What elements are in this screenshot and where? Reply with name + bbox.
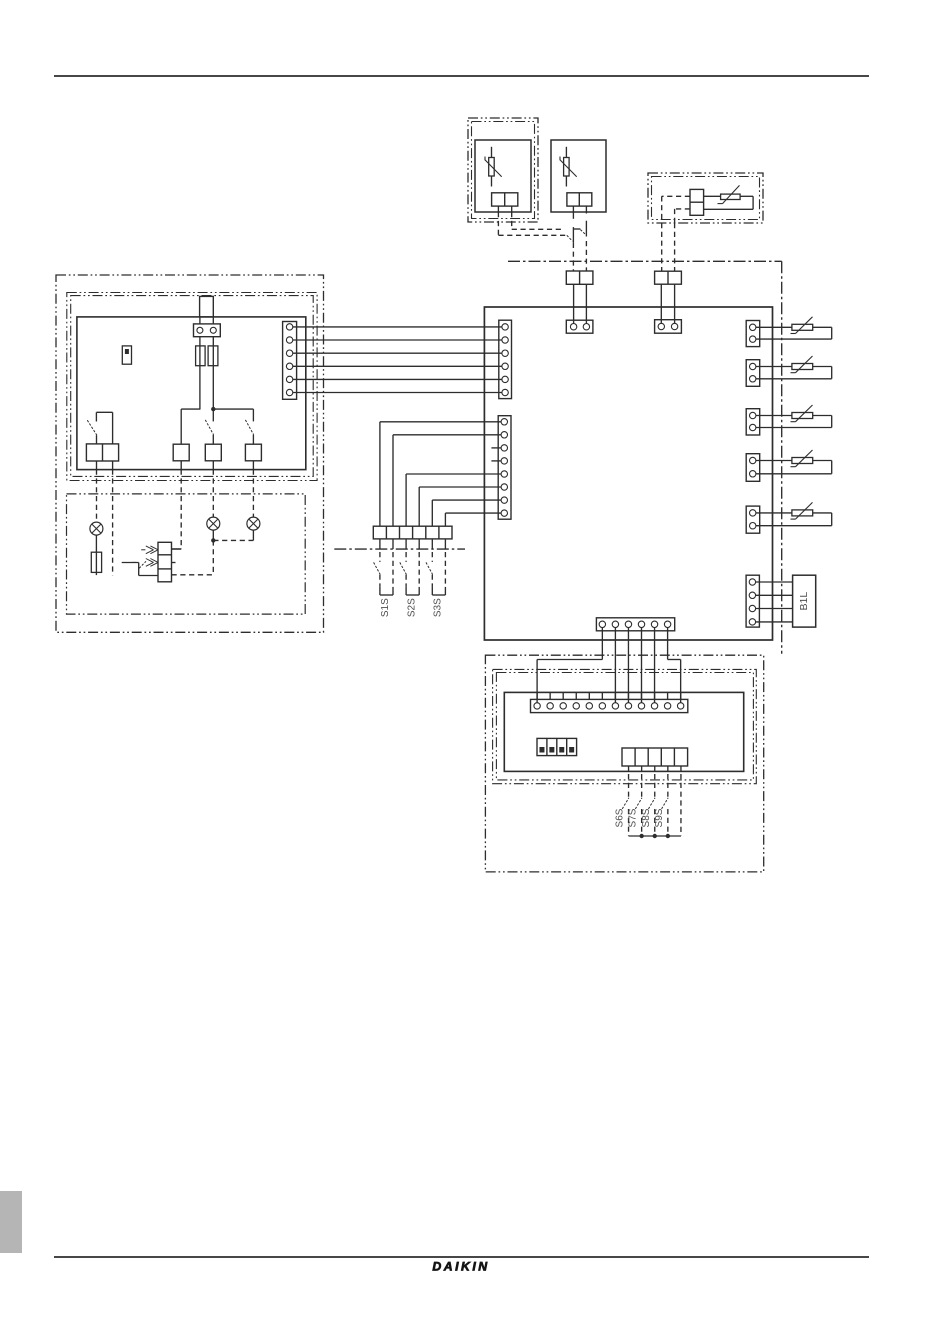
connector X34A	[746, 506, 760, 533]
wire A left pin dashed	[497, 212, 499, 235]
switch common bus	[629, 835, 681, 837]
connector X1B pins	[573, 206, 586, 213]
thermistor R1T lead	[491, 147, 493, 187]
thermistor R6T loop	[753, 416, 832, 428]
wire dashed to switch lower	[498, 234, 566, 236]
switch S8S	[641, 774, 655, 836]
connector X11A	[566, 320, 593, 333]
connector X4M	[596, 618, 674, 631]
wire A right pin dashed	[511, 212, 513, 229]
plug X10D pins	[200, 317, 213, 324]
thermistor R1T strike	[485, 157, 502, 177]
switch S3S	[426, 552, 445, 617]
contactor K1M aux contact	[122, 561, 158, 575]
DAIKIN logo	[432, 1260, 489, 1274]
wire H2P junction	[212, 530, 214, 540]
thermistor R5T loop	[753, 367, 832, 379]
thermistor R2T lead	[565, 147, 567, 187]
svg-text:B1L: B1L	[798, 592, 810, 611]
sensor box A body	[475, 140, 531, 212]
relay contact K1R	[180, 409, 182, 444]
switch S7S	[628, 774, 642, 836]
svg-text:DAIKIN: DAIKIN	[432, 1260, 489, 1274]
contactor K1M stack	[158, 542, 172, 582]
wire dashed contactor return	[172, 574, 214, 576]
thermistor R4T loop	[753, 327, 832, 339]
thermistor R4T body	[792, 324, 813, 330]
svg-text:S6S: S6S	[615, 808, 626, 827]
wire C to X2B dashed	[662, 223, 675, 271]
wires indoor strip to X1M	[290, 327, 506, 393]
switch S1S	[374, 552, 393, 617]
connector X1A	[492, 193, 518, 206]
relay contact K3R	[245, 409, 253, 444]
thermistor R3T loop	[704, 196, 754, 209]
svg-text:S1S: S1S	[380, 598, 391, 617]
switch S2S	[400, 552, 419, 617]
switch S pole	[573, 212, 580, 243]
controller box body	[77, 317, 306, 470]
wire X11D to bus right	[212, 337, 214, 409]
connector X2B	[655, 271, 682, 284]
connector X1A pins	[498, 206, 511, 212]
thermistor R7T loop	[753, 461, 832, 474]
wire dashed junction down	[212, 540, 214, 574]
relay coil K3R box	[245, 444, 261, 461]
enclosure A inner border	[472, 122, 535, 219]
page top rule	[54, 75, 869, 77]
terminal strip X2M	[498, 416, 511, 520]
svg-text:S9S: S9S	[654, 808, 665, 827]
wires X5M to B1L	[752, 582, 792, 622]
wire X1C dashed leads	[662, 196, 690, 223]
pins below coils	[97, 461, 254, 470]
thermistor R7T strike	[791, 450, 813, 467]
enclosure D outer border	[56, 275, 324, 632]
thermistor R5T body	[792, 364, 813, 370]
connector X30A	[746, 321, 760, 347]
wire switch to X2A left	[572, 243, 574, 271]
thermistor R1T body	[489, 158, 495, 177]
wires X4M to remote strip	[537, 628, 681, 706]
switch S6S	[615, 774, 629, 836]
junction dot lamps	[211, 538, 215, 542]
enclosure D lower border	[67, 494, 306, 614]
connector X12D	[86, 444, 118, 461]
wire to lamp H3P	[252, 470, 254, 517]
thermistor R6T body	[792, 413, 813, 419]
junction dots common bus	[639, 834, 670, 838]
contactor K1M top lead	[172, 548, 182, 550]
enclosure D upper inner border	[67, 293, 317, 481]
thermistor R2T body	[564, 158, 570, 177]
wire switch to X2A right	[585, 241, 587, 271]
relay coil K2R box	[205, 444, 221, 461]
switch S blade upper	[580, 230, 586, 235]
wire S9S return	[680, 774, 682, 836]
relay K4R contact	[87, 412, 112, 444]
connector X1B	[567, 193, 592, 206]
enclosure E inner border	[493, 669, 757, 783]
thermistor R4T strike	[791, 317, 813, 334]
remote board body	[504, 692, 743, 771]
component HAP	[122, 346, 131, 364]
wire dashed H2P to H3P	[213, 539, 253, 541]
terminal strip X1R	[531, 699, 688, 712]
thermistor R3T strike	[718, 185, 740, 203]
svg-text:S8S: S8S	[641, 808, 652, 827]
switch S blade lower	[567, 235, 573, 241]
junction dot bus	[211, 407, 215, 411]
wire dashed to switch upper	[512, 228, 564, 230]
plug X10D	[200, 296, 214, 317]
svg-text:S7S: S7S	[628, 808, 639, 827]
thermistor R7T body	[792, 458, 813, 464]
switch S right contact	[585, 221, 587, 237]
thermistor R8T loop	[753, 513, 832, 526]
enclosure C inner border	[652, 177, 760, 220]
enclosure E outer border	[485, 655, 763, 872]
connector X31A	[746, 360, 760, 387]
field wiring boundary	[508, 261, 782, 653]
thermistor R8T body	[792, 510, 813, 516]
terminal strip X1D	[283, 322, 297, 400]
enclosure C outer border	[648, 173, 763, 223]
dangling wire X12D right	[112, 470, 114, 576]
thermistor R6T strike	[791, 405, 813, 422]
connector X2R pins	[629, 766, 681, 771]
enclosure A outer border	[468, 118, 538, 222]
main control box	[484, 307, 772, 640]
fuse F3U body	[91, 552, 101, 572]
wire lamp H1P to fuse	[95, 535, 97, 575]
page bottom rule	[54, 1256, 869, 1258]
fuse F2U body	[208, 346, 218, 366]
sensor box B body	[551, 140, 606, 212]
fuse F1U body	[196, 346, 206, 366]
svg-text:S3S: S3S	[433, 598, 444, 617]
connector X1C	[690, 189, 704, 215]
thermistor R2T strike	[560, 157, 577, 177]
lamp H1P	[90, 522, 103, 535]
option connector pins	[380, 539, 446, 549]
thermistor R3T body	[721, 194, 741, 199]
lamp H2P	[207, 517, 220, 530]
connector X33A	[746, 454, 760, 482]
switch S9S	[654, 774, 668, 836]
relay coil K1R box	[173, 444, 189, 461]
wires X2M to option connector	[380, 422, 504, 526]
connector X32A	[746, 409, 760, 435]
wire X2B to X11B	[661, 284, 674, 326]
wire to lamp H1P	[96, 470, 98, 522]
wire X11D to bus left	[199, 337, 201, 409]
terminal strip X1R stubs	[537, 692, 681, 699]
connector X2A	[566, 271, 593, 284]
page margin grey tab	[0, 1191, 22, 1253]
relay contact K2R	[205, 409, 213, 444]
thermistor R5T strike	[791, 356, 813, 373]
DIP switch SS1	[537, 738, 577, 755]
contactor K1M actuation arrows	[132, 546, 158, 566]
svg-text:S2S: S2S	[406, 598, 417, 617]
connector X2R	[622, 748, 688, 766]
connector X11D	[194, 324, 221, 337]
connector X11B	[655, 320, 682, 334]
field line under X3M	[334, 548, 465, 550]
wire to lamp H2P	[212, 470, 214, 517]
wire H3P stub	[252, 530, 254, 540]
connector X5M	[746, 575, 759, 627]
bus wire	[181, 408, 253, 410]
wire X2A to X11A	[574, 284, 587, 326]
contactor K1M mid stub	[172, 562, 176, 564]
level sensor B1L	[793, 575, 816, 627]
option connector X3M	[373, 526, 452, 539]
thermistor R8T strike	[791, 502, 813, 519]
lamp H3P	[247, 517, 260, 530]
wire K1R to contactor	[172, 470, 182, 549]
terminal strip X1M	[499, 320, 512, 398]
